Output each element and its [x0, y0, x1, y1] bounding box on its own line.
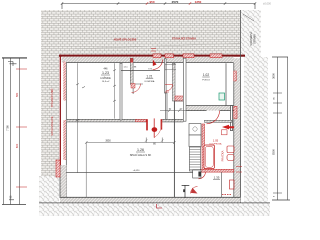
door arc into big room	[154, 121, 162, 138]
svg-text:1.26: 1.26	[137, 148, 144, 152]
svg-text:3600: 3600	[272, 73, 276, 79]
right dimension lines	[272, 56, 288, 58]
bathroom lower red wall	[198, 169, 234, 172]
red ticks on left red dim	[16, 69, 27, 187]
green shaft	[219, 93, 225, 100]
neighbour wall right edge	[239, 10, 241, 56]
middle wall right part below room 1.02	[186, 106, 234, 111]
red window in west wall step	[56, 160, 60, 177]
misc interior ticks	[82, 87, 85, 89]
interior dim line h y142.5	[86, 142, 174, 144]
svg-text:600: 600	[15, 143, 19, 148]
bathroom red wall (left of tub)	[202, 124, 205, 172]
red wall segment WC south	[175, 96, 183, 101]
neighbour note (right, vertical)	[249, 32, 257, 46]
red wall stub top of x131 wall	[130, 58, 133, 62]
kitchen ladder unit	[190, 147, 201, 171]
svg-text:+0,020: +0,020	[133, 170, 141, 172]
east wall (hatched)	[234, 58, 241, 203]
room label 1.23	[100, 68, 111, 84]
terrain diagonal hatch (top-right block)	[241, 10, 261, 57]
svg-text:950: 950	[149, 0, 154, 4]
middle wall left part (hatched)	[66, 119, 146, 122]
terrain diagonal hatch (bottom strip)	[39, 203, 270, 216]
svg-text:7780: 7780	[6, 125, 10, 131]
west wall outer line (dark red)	[59, 55, 61, 165]
door dim ticks	[145, 138, 163, 143]
vestibule wall	[173, 101, 175, 197]
interior wall x226 (top-right)	[225, 63, 227, 105]
svg-text:1.05: 1.05	[213, 139, 219, 143]
corridor lower wall piece	[175, 100, 183, 102]
left dim bracket	[8, 62, 17, 67]
interior dim line v x114	[114, 63, 116, 118]
bathtub (red)	[204, 145, 215, 169]
window (red) in north wall 2	[183, 54, 194, 58]
red hatch segment on east wall upper	[234, 71, 236, 81]
neighbouring building brick band (top)	[41, 10, 240, 56]
north wall (maroon)	[59, 55, 245, 57]
window (red) in north wall 3	[210, 54, 222, 58]
corridor dim ticks	[165, 63, 176, 70]
hall lower wall piece	[133, 84, 143, 94]
svg-text:1.02: 1.02	[203, 73, 209, 77]
door jambs (red)	[146, 119, 148, 130]
terrain diagonal hatch (bottom-left block)	[39, 176, 66, 203]
bottom-right room partition	[221, 172, 223, 197]
terrain diagonal hatch (right strip)	[244, 57, 268, 207]
interior wall x173 (corridor / room 1.02 zone)	[173, 63, 176, 101]
svg-text:±0,000: ±0,000	[263, 2, 271, 6]
red solid marker	[222, 125, 234, 130]
WC (red)	[227, 146, 234, 153]
interior wall x121 (room 1.23 / hall)	[120, 63, 122, 120]
interior dim line v x77	[77, 63, 79, 172]
svg-text:LOŽNICE: LOŽNICE	[100, 77, 111, 80]
west wall inner face	[65, 63, 67, 198]
door arc hall top	[153, 60, 163, 70]
interior wall x184	[183, 58, 186, 121]
faint utility line across band	[75, 43, 240, 49]
red dashes on south wall below 1.35	[222, 194, 232, 196]
svg-text:2570: 2570	[172, 0, 179, 4]
middle wall right of door	[162, 119, 183, 122]
level marker symbol	[182, 185, 190, 198]
bathroom door threshold block	[193, 170, 201, 178]
interior dim line v x86	[85, 143, 87, 198]
svg-text:1250: 1250	[195, 0, 202, 4]
kitchen units	[189, 124, 201, 136]
corridor door (red) lower	[166, 85, 173, 92]
svg-text:POKOJ: POKOJ	[202, 79, 209, 81]
red ticks across east wall	[236, 167, 242, 173]
interior dim line h y110 kitchen	[160, 110, 186, 112]
north wall inner face	[66, 62, 234, 64]
door arc room 1.02 to kitchen	[207, 111, 220, 124]
south wall (hatched)	[60, 197, 240, 202]
window (red) in north wall 1b	[165, 54, 174, 58]
svg-text:NOVÁ IZOLACE: NOVÁ IZOLACE	[50, 116, 54, 135]
floor step line across big room	[66, 172, 198, 174]
left dimension lines	[2, 57, 27, 59]
svg-text:16,3 m²: 16,3 m²	[102, 80, 110, 83]
washbasin (red)	[227, 155, 234, 161]
svg-text:SPACÍ HALA S KK: SPACÍ HALA S KK	[130, 153, 152, 157]
svg-text:1.35: 1.35	[214, 176, 220, 180]
plan interior white	[59, 56, 241, 203]
north wall core (hatched)	[62, 57, 234, 63]
leader line to neighbour note	[243, 14, 254, 21]
radiator (red) room 1.35	[230, 180, 235, 189]
door leaf (red) big room	[153, 118, 155, 137]
window (red) in north wall 1	[153, 54, 161, 58]
west wall step segment (hatched)	[60, 165, 66, 198]
svg-text:8300: 8300	[272, 149, 276, 155]
svg-text:1.21: 1.21	[146, 75, 152, 79]
svg-text:580: 580	[15, 92, 19, 97]
west wall new layer (red stipple) upper	[63, 62, 66, 101]
svg-text:3950: 3950	[105, 140, 111, 143]
room label 1.35	[213, 176, 220, 180]
entrance door (red)	[191, 187, 198, 194]
shaft wall (dark) right section	[231, 106, 233, 131]
svg-text:446: 446	[104, 68, 109, 71]
room label 1.26	[130, 148, 152, 157]
room label 1.02	[202, 73, 209, 81]
door leaf mark (red)	[153, 60, 157, 67]
top dimension line	[62, 3, 255, 5]
small red mark in band	[151, 49, 156, 52]
west wall new layer (red stipple) lower	[63, 120, 66, 160]
red shaft hatch on east wall	[234, 106, 237, 118]
door arc bathroom lower	[199, 172, 206, 179]
svg-text:SOUSEDNÍ: SOUSEDNÍ	[249, 32, 253, 46]
door arc hall left (red hatch leaf)	[131, 84, 135, 89]
room label 1.21	[145, 75, 155, 83]
svg-text:1.23: 1.23	[102, 71, 109, 75]
hall top wall y70.5	[121, 70, 160, 72]
interior wall x166 lower continuation	[166, 93, 168, 119]
svg-text:KOMORA: KOMORA	[145, 80, 155, 83]
interior wall x131 (hall / store)	[130, 58, 133, 84]
section mark (red L)	[157, 204, 163, 208]
bath entry lower wall	[205, 120, 233, 122]
neighbouring building brick strip (left)	[41, 56, 60, 176]
svg-text:STAVBA: STAVBA	[253, 34, 257, 44]
svg-text:KOUPELNA: KOUPELNA	[210, 143, 222, 146]
small red cabinet outline	[222, 130, 228, 135]
room label 1.05 (red)	[210, 139, 222, 146]
interior wall x165 (room 1.21 right)	[165, 59, 167, 94]
red wall segment left of door	[136, 119, 147, 121]
